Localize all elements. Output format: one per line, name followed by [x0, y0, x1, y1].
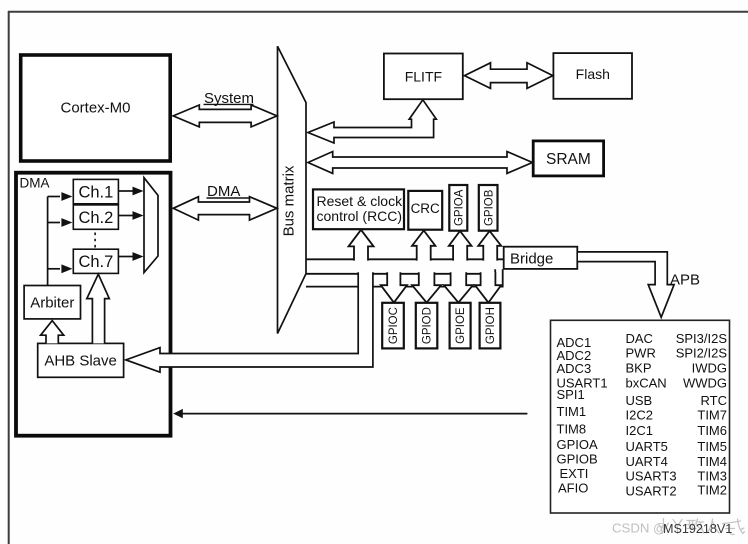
- svg-text:GPIOA: GPIOA: [454, 189, 466, 226]
- svg-text:SPI1: SPI1: [557, 387, 585, 402]
- block Bridge: [504, 247, 578, 269]
- block GPIOD: [416, 303, 438, 349]
- svg-text:DAC: DAC: [626, 331, 653, 346]
- hollow arrow bus to GPIOC: [381, 272, 407, 302]
- hollow arrow bus to GPIOD: [412, 272, 441, 302]
- wire Ch.1 to funnel with arrowhead: [118, 187, 143, 196]
- svg-text:USART2: USART2: [626, 484, 677, 499]
- svg-text:APB: APB: [670, 271, 700, 288]
- svg-text:Arbiter: Arbiter: [30, 295, 74, 312]
- block AHB Slave: [38, 343, 124, 377]
- branch wire to Ch.1 with arrowhead: [48, 192, 73, 201]
- svg-text:TIM4: TIM4: [697, 454, 727, 469]
- arrow System Cortex to bus matrix: [173, 105, 277, 127]
- svg-text:I2C1: I2C1: [626, 423, 653, 438]
- svg-text:TIM1: TIM1: [557, 404, 587, 419]
- hollow arrow AHB Slave to Ch.7: [87, 274, 110, 343]
- wire DMA request line with arrowhead into DMA: [173, 409, 527, 418]
- svg-text:Ch.7: Ch.7: [78, 253, 113, 271]
- svg-text:TIM6: TIM6: [697, 423, 727, 438]
- svg-text:TIM5: TIM5: [697, 439, 727, 454]
- svg-text:WWDG: WWDG: [683, 375, 727, 390]
- block Cortex-M0: [21, 55, 171, 161]
- svg-text:TIM7: TIM7: [697, 407, 727, 422]
- block Ch.7: [73, 249, 118, 273]
- bus matrix polygon: [278, 46, 307, 333]
- svg-text:ADC3: ADC3: [557, 361, 592, 376]
- label DMA underlined: [207, 183, 250, 200]
- svg-text:USART3: USART3: [626, 469, 677, 484]
- svg-text:CSDN @: CSDN @: [612, 521, 666, 536]
- svg-text:GPIOE: GPIOE: [455, 307, 467, 344]
- block GPIOC: [382, 303, 404, 349]
- block FLITF: [384, 54, 463, 100]
- arrow bus matrix to SRAM bidirectional: [308, 152, 532, 174]
- svg-text:PWR: PWR: [626, 346, 656, 361]
- hollow arrow bus to GPIOB: [478, 231, 501, 261]
- svg-text:UART4: UART4: [626, 454, 668, 469]
- bent hollow arrow lower bus to AHB Slave: [126, 272, 373, 372]
- block SRAM: [533, 141, 603, 176]
- svg-text:Ch.2: Ch.2: [78, 209, 113, 227]
- hollow arrow bus to RCC: [349, 230, 374, 261]
- wire Ch.2 to funnel with arrowhead: [118, 211, 143, 220]
- block GPIOH: [480, 303, 501, 349]
- svg-text:FLITF: FLITF: [405, 68, 442, 84]
- hollow arrow bus to GPIOH: [475, 272, 501, 302]
- block Ch.1: [73, 179, 118, 203]
- dotted line between Ch.2 and Ch.7: [94, 233, 96, 249]
- funnel collector inside DMA: [144, 178, 158, 273]
- hollow wire Bridge to APB arrow: [578, 252, 674, 317]
- svg-text:Flash: Flash: [576, 66, 610, 82]
- svg-text:bxCAN: bxCAN: [626, 375, 667, 390]
- svg-text:Bus matrix: Bus matrix: [281, 165, 298, 236]
- block Arbiter: [24, 286, 80, 319]
- label System underlined: [204, 90, 255, 107]
- svg-text:control (RCC): control (RCC): [317, 208, 403, 224]
- upper AHB bus line: [306, 258, 504, 260]
- block Reset and clock control RCC: [313, 189, 404, 229]
- svg-text:I2C2: I2C2: [626, 407, 653, 422]
- hollow arrow bus to CRC: [412, 231, 435, 261]
- svg-text:CRC: CRC: [411, 201, 440, 216]
- wire Ch.7 to funnel with arrowhead: [118, 252, 143, 261]
- svg-text:GPIOD: GPIOD: [422, 307, 434, 344]
- hollow arrow AHB Slave to Arbiter: [41, 321, 64, 344]
- block DMA container: [16, 173, 171, 436]
- watermark CJK glyph marks: [659, 519, 745, 535]
- svg-text:Bridge: Bridge: [510, 251, 553, 268]
- bent arrow bus matrix to FLITF: [308, 100, 436, 143]
- trunk wire from Arbiter up to channel branches: [47, 197, 49, 286]
- svg-text:TIM2: TIM2: [697, 483, 727, 498]
- lower AHB bus hollow wire: [306, 269, 503, 286]
- svg-text:EXTI: EXTI: [560, 466, 589, 481]
- block CRC: [408, 191, 442, 230]
- block Ch.2: [73, 205, 118, 229]
- arrow DMA box to bus matrix: [173, 197, 277, 220]
- svg-text:USB: USB: [626, 393, 653, 408]
- branch wire to Ch.7 with arrowhead: [48, 264, 73, 273]
- svg-text:IWDG: IWDG: [692, 360, 727, 375]
- block GPIOB: [479, 185, 498, 231]
- svg-text:GPIOA: GPIOA: [557, 437, 599, 452]
- svg-text:Reset & clock: Reset & clock: [317, 193, 404, 209]
- svg-text:SPI3/I2S: SPI3/I2S: [676, 331, 728, 346]
- frame top line: [8, 11, 748, 13]
- svg-text:UART5: UART5: [626, 439, 668, 454]
- frame left line: [8, 11, 10, 544]
- branch wire to Ch.2 with arrowhead: [48, 218, 73, 227]
- svg-text:SPI2/I2S: SPI2/I2S: [676, 346, 728, 361]
- svg-text:GPIOB: GPIOB: [483, 189, 495, 226]
- svg-text:AHB Slave: AHB Slave: [44, 353, 117, 370]
- block GPIOA: [449, 185, 467, 231]
- svg-text:TIM8: TIM8: [557, 421, 587, 436]
- svg-text:DMA: DMA: [20, 176, 50, 191]
- block GPIOE: [450, 303, 471, 349]
- svg-text:SRAM: SRAM: [546, 151, 591, 168]
- svg-text:AFIO: AFIO: [558, 481, 588, 496]
- arrow FLITF to Flash bidirectional: [465, 63, 553, 89]
- hollow arrow bus to GPIOE: [444, 272, 473, 302]
- svg-text:GPIOB: GPIOB: [557, 452, 598, 467]
- svg-text:RTC: RTC: [701, 393, 727, 408]
- hollow arrow bus to GPIOA: [449, 231, 472, 261]
- block APB peripherals list: [551, 320, 730, 513]
- svg-text:BKP: BKP: [626, 360, 652, 375]
- svg-text:GPIOH: GPIOH: [485, 307, 497, 344]
- svg-text:GPIOC: GPIOC: [388, 307, 400, 344]
- svg-text:Cortex-M0: Cortex-M0: [60, 100, 130, 117]
- svg-text:Ch.1: Ch.1: [78, 183, 113, 201]
- svg-text:MS19218V1: MS19218V1: [663, 522, 732, 536]
- svg-text:TIM3: TIM3: [697, 469, 727, 484]
- block Flash: [553, 53, 632, 99]
